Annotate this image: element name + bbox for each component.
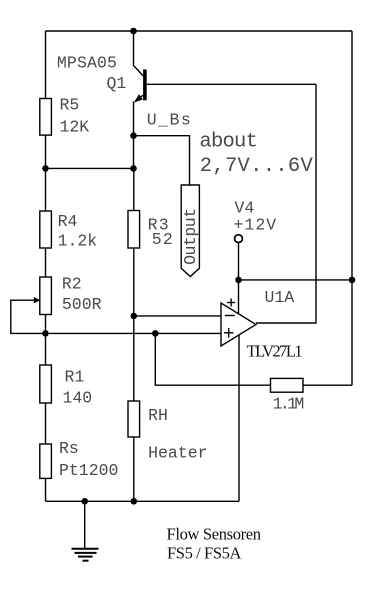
resistor 1.1M bbox=[271, 378, 304, 392]
svg-text:R4: R4 bbox=[58, 212, 78, 231]
resistor RH bbox=[128, 401, 140, 437]
svg-text:Rs: Rs bbox=[59, 439, 79, 458]
wire top +12V rail bbox=[46, 30, 353, 32]
svg-text:Pt1200: Pt1200 bbox=[59, 461, 118, 480]
junction dot supply row left bbox=[235, 277, 242, 284]
resistor R2 bbox=[40, 277, 52, 315]
junction dot supply row right bbox=[349, 277, 356, 284]
wire Rs to bottom rail bbox=[45, 478, 47, 501]
wire 1.1M to right rail bbox=[303, 384, 352, 386]
wire inverting input bbox=[134, 315, 221, 317]
junction dot U_Bs node bbox=[130, 132, 137, 139]
svg-text:MPSA05: MPSA05 bbox=[57, 53, 117, 72]
wire R4 to R2 bbox=[45, 248, 47, 277]
resistor R4 bbox=[40, 211, 52, 248]
junction dot left rail row bbox=[42, 165, 49, 172]
svg-text:RH: RH bbox=[148, 406, 168, 425]
svg-text:1.2k: 1.2k bbox=[58, 232, 98, 251]
junction dot noninverting node bbox=[152, 330, 159, 337]
potentiometer wiper arrow R2 bbox=[34, 297, 40, 303]
svg-text:U_Bs: U_Bs bbox=[147, 110, 191, 129]
svg-text:R5: R5 bbox=[60, 96, 80, 115]
svg-text:Flow Sensoren: Flow Sensoren bbox=[167, 525, 262, 544]
wire base drop to op-amp output bbox=[256, 84, 316, 323]
wire op-amp V- down to bottom rail bbox=[238, 336, 240, 502]
wire collector drop from top rail bbox=[134, 31, 144, 76]
resistor Rs bbox=[40, 444, 52, 478]
wire R5 to R4 bbox=[45, 135, 47, 211]
svg-text:12K: 12K bbox=[60, 118, 90, 137]
svg-text:V4: V4 bbox=[235, 198, 255, 217]
wire V4 terminal down to supply row bbox=[238, 243, 240, 314]
wire right rail down to 1.1M bbox=[351, 31, 353, 385]
output flag bbox=[181, 185, 199, 277]
svg-text:about: about bbox=[199, 131, 258, 154]
wire R2 to R1 bbox=[45, 315, 47, 366]
wire R3 node down to RH bbox=[133, 316, 135, 401]
wire U_Bs to output flag bbox=[134, 136, 190, 185]
wire wiper feedback bbox=[11, 300, 221, 333]
svg-text:Heater: Heater bbox=[148, 444, 207, 463]
terminal V4 bbox=[235, 235, 243, 243]
svg-text:500R: 500R bbox=[62, 295, 102, 314]
svg-text:R2: R2 bbox=[62, 274, 82, 293]
wire supply row to right rail bbox=[239, 279, 353, 281]
junction dot R3 top row bbox=[130, 165, 137, 172]
junction dot top rail / collector bbox=[130, 28, 137, 35]
wire node to R3 bbox=[133, 168, 135, 210]
svg-text:1.1M: 1.1M bbox=[273, 394, 305, 413]
junction dot inverting input bbox=[131, 313, 138, 320]
junction dot ground tap bbox=[81, 498, 88, 505]
junction dot RH bottom bbox=[131, 498, 138, 505]
junction dot wiper on left rail bbox=[42, 330, 49, 337]
svg-text:52: 52 bbox=[152, 230, 173, 249]
svg-text:2,7V...6V: 2,7V...6V bbox=[200, 155, 314, 178]
wire left rail top to R5 bbox=[45, 31, 47, 99]
svg-text:+12V: +12V bbox=[234, 216, 277, 235]
resistor R5 bbox=[40, 99, 52, 136]
svg-text:U1A: U1A bbox=[265, 288, 295, 307]
svg-text:140: 140 bbox=[63, 389, 93, 408]
transistor Q1 bbox=[134, 70, 145, 103]
wire R1 to Rs bbox=[45, 403, 47, 444]
wire cross link U_Bs row bbox=[46, 167, 134, 169]
wire emitter down to U_Bs node bbox=[133, 102, 135, 169]
wire RH to bottom rail bbox=[133, 437, 135, 501]
svg-text:FS5 / FS5A: FS5 / FS5A bbox=[167, 544, 241, 563]
svg-text:R1: R1 bbox=[65, 368, 85, 387]
wire base lead to right bbox=[147, 83, 316, 85]
wire noninv node to 1.1M bbox=[155, 333, 270, 385]
svg-text:Output: Output bbox=[181, 208, 200, 265]
wire bottom rail bbox=[46, 500, 240, 502]
resistor R3 bbox=[128, 211, 140, 249]
svg-text:TLV27L1: TLV27L1 bbox=[247, 342, 303, 361]
resistor R1 bbox=[40, 365, 52, 403]
ground bbox=[72, 501, 99, 560]
svg-text:Q1: Q1 bbox=[107, 74, 127, 93]
wire R3 to inverting input row bbox=[133, 248, 135, 316]
op-amp U1A bbox=[221, 299, 256, 347]
